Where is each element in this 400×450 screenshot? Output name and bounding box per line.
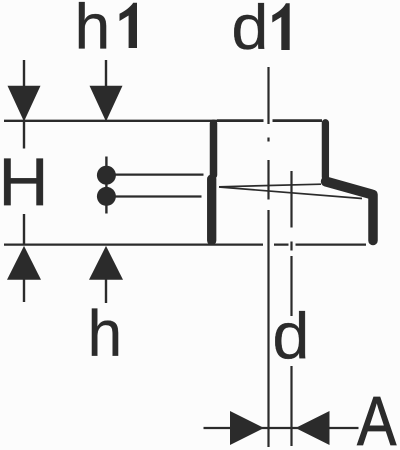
svg-text:d: d bbox=[231, 0, 268, 63]
svg-text:A: A bbox=[357, 382, 396, 450]
svg-text:d: d bbox=[272, 299, 309, 372]
svg-text:H: H bbox=[0, 143, 49, 219]
svg-text:h: h bbox=[75, 0, 111, 62]
svg-text:h: h bbox=[88, 297, 122, 370]
